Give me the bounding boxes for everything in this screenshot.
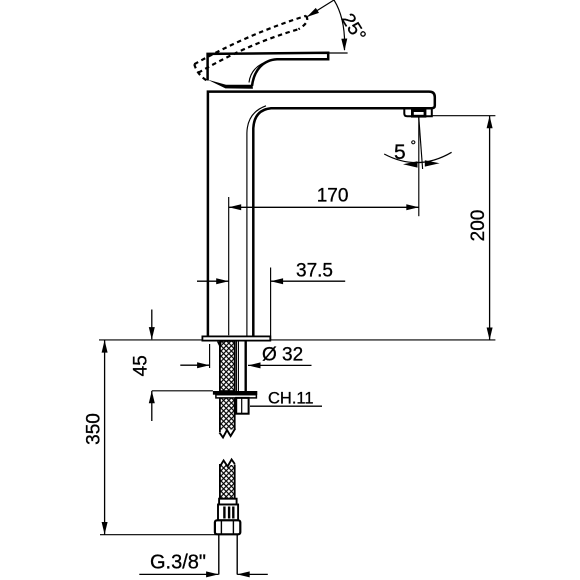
svg-text:G.3/8": G.3/8": [150, 552, 206, 574]
base plate: [202, 336, 270, 340]
crimp section: [218, 505, 238, 521]
dimension 170: [228, 197, 230, 335]
svg-text:°: °: [411, 137, 417, 153]
lever handle (closed position): [208, 53, 329, 86]
connector pipe: [218, 534, 220, 574]
dimension 25 degrees: [308, 0, 348, 53]
svg-text:5: 5: [394, 141, 406, 164]
dimension 350: [104, 340, 106, 534]
dimension 45: [151, 310, 153, 340]
svg-text:45: 45: [131, 355, 152, 376]
lever base dark band: [208, 80, 253, 89]
svg-text:350: 350: [84, 413, 105, 445]
svg-text:170: 170: [317, 186, 349, 207]
CH.11 nut: [236, 398, 248, 414]
dimension diameter 32: [209, 344, 211, 368]
svg-text:200: 200: [468, 210, 489, 242]
dimension 37.5: [270, 268, 272, 340]
svg-text:Ø 32: Ø 32: [262, 345, 303, 366]
flexible hose lower piece: [220, 460, 235, 467]
hex nut G3/8: [215, 520, 240, 534]
shank shadow wedge: [217, 342, 222, 349]
hose collar: [219, 499, 237, 505]
mounting washer: [213, 391, 257, 395]
dimension 5 degrees: [418, 117, 420, 216]
svg-text:CH.11: CH.11: [268, 389, 314, 407]
lever handle raised 25deg (dashed): [194, 16, 307, 81]
faucet body and spout outline: [208, 92, 435, 337]
supply pipe lines: [235, 341, 237, 391]
label CH.11: [250, 405, 322, 407]
spout inner highlight line: [247, 106, 266, 337]
svg-text:37.5: 37.5: [296, 261, 333, 282]
dimension 200: [432, 115, 496, 117]
threaded shank below washer with break: [220, 398, 235, 430]
dimension G.3/8": [139, 573, 218, 575]
mounting surface reference lines: [99, 339, 202, 341]
threaded shank (crosshatched) upper: [220, 341, 235, 391]
aerator: [404, 108, 432, 116]
